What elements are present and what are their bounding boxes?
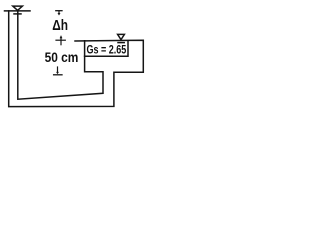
svg-text:Δh: Δh xyxy=(52,18,68,34)
svg-text:50 cm: 50 cm xyxy=(45,49,79,65)
svg-text:Gs = 2.65: Gs = 2.65 xyxy=(87,43,127,57)
